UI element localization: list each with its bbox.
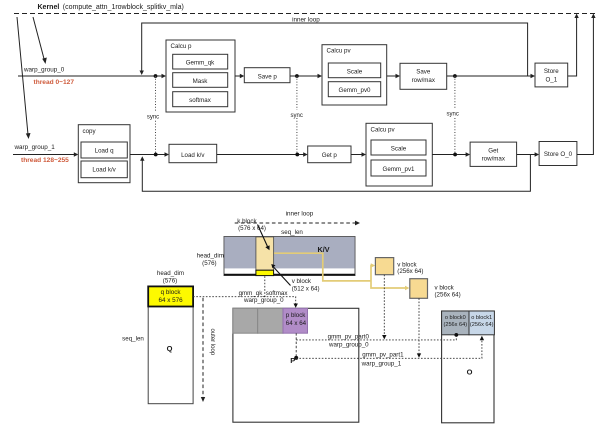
svg-text:o block1: o block1 [471, 315, 492, 321]
svg-text:O: O [467, 368, 473, 377]
label sync1 [147, 112, 161, 121]
label K/V [318, 245, 330, 254]
svg-text:(512 x 64): (512 x 64) [292, 286, 320, 293]
svg-text:copy: copy [83, 128, 97, 135]
box Calcu pv (warp_group_1) [366, 123, 432, 186]
wire Save p to Calcu pv [290, 74, 322, 78]
wire Store O_1 up to kernel boundary [568, 14, 579, 77]
svg-text:Calcu pv: Calcu pv [371, 127, 396, 134]
svg-text:Gemm_pv0: Gemm_pv0 [339, 87, 372, 94]
box Store O_0 [539, 142, 577, 166]
svg-text:p block: p block [286, 312, 307, 319]
node junction o block0 dot [454, 333, 458, 337]
svg-text:v block: v block [292, 278, 312, 285]
block p block purple [283, 308, 308, 333]
node junction sync2 top [295, 74, 299, 78]
svg-text:o block0: o block0 [445, 315, 466, 321]
label warp_group_1 [14, 144, 56, 151]
wire sync3 dotted [454, 76, 456, 155]
node junction sync1 bottom [154, 153, 158, 157]
svg-text:thread 0~127: thread 0~127 [34, 79, 75, 86]
svg-text:seq_len: seq_len [281, 229, 303, 236]
box Store O_1 [535, 63, 568, 87]
wire inner loop return (top row) [140, 23, 528, 76]
wire inner loop return (bottom row) [140, 155, 530, 192]
label warp_group_0 [23, 67, 65, 74]
svg-text:Store: Store [544, 68, 559, 75]
svg-text:inner loop: inner loop [292, 17, 320, 24]
svg-text:sync: sync [147, 114, 159, 120]
wire inner loop dashed arrow [235, 221, 360, 226]
svg-text:seq_len: seq_len [122, 336, 144, 343]
svg-text:Scale: Scale [391, 145, 407, 152]
svg-text:64 x 576: 64 x 576 [159, 297, 184, 304]
svg-text:Mask: Mask [193, 78, 209, 85]
svg-text:warp_group_1: warp_group_1 [14, 144, 56, 151]
box softmax [173, 92, 228, 107]
svg-text:Load k/v: Load k/v [181, 152, 205, 159]
block p gray cell 2 [258, 308, 283, 333]
label gmm_qk_softmax / warp_group_0 [239, 290, 289, 304]
box Save row/max [400, 63, 447, 89]
wire v square1 dotted down [382, 275, 386, 340]
box Gemm_pv0 [328, 82, 380, 97]
label thread 0~127 [34, 79, 75, 86]
wire main line warp_group_0 [18, 74, 166, 78]
wire copy to Load k/v [130, 152, 169, 156]
box Scale (pv1) [371, 140, 426, 155]
box Get row/max [470, 142, 516, 166]
wire outer loop dashed arrow [201, 298, 205, 402]
svg-text:(576): (576) [202, 260, 216, 267]
arrow kernel to warp_group_1 [17, 17, 31, 139]
svg-text:Gemm_qk: Gemm_qk [186, 60, 215, 67]
svg-text:Store O_0: Store O_0 [544, 151, 573, 158]
svg-text:gmm_pv_part1: gmm_pv_part1 [362, 352, 404, 359]
label seq_len (K/V) [281, 229, 303, 236]
wire v cell dotted down to gmm line [264, 276, 266, 296]
label v block (512 x 64) [292, 278, 320, 293]
box Save p [244, 68, 290, 83]
kernel dashed boundary [14, 13, 597, 15]
box Load k/v (main) [169, 144, 217, 162]
svg-text:head_dim: head_dim [157, 270, 184, 277]
block p gray cell 1 [233, 308, 258, 333]
svg-text:warp_group_0: warp_group_0 [243, 297, 284, 304]
block v cell yellow [256, 270, 274, 275]
svg-text:Calcu p: Calcu p [171, 43, 193, 50]
label head_dim (576) for Q [157, 270, 184, 284]
wire Store O_0 up to kernel boundary [577, 14, 596, 155]
label seq_len (Q) [122, 336, 144, 343]
label P [290, 356, 295, 365]
node junction sync3 top [453, 74, 457, 78]
wire p block dashed down [295, 333, 297, 357]
wire Calcu pv to Save row/max [387, 74, 400, 78]
svg-text:inner loop: inner loop [286, 211, 314, 218]
wire Calcu p to Save p [235, 74, 244, 78]
node junction sync3 bottom [453, 153, 457, 157]
label head_dim (576) for K/V [197, 252, 224, 267]
block o block1 [469, 311, 494, 335]
kernel title [38, 4, 184, 11]
block P matrix [233, 308, 359, 422]
arrow kernel to warp_group_0 [33, 17, 47, 64]
box Mask [173, 73, 228, 88]
svg-text:Q: Q [167, 344, 173, 353]
block k column highlight [256, 237, 274, 270]
wire gmm_pv_part1 dotted [296, 336, 484, 359]
label outer loop (rotated) [209, 329, 215, 356]
svg-text:O_1: O_1 [545, 77, 557, 84]
svg-text:Kernel(compute_attn_1rowblock_: Kernel(compute_attn_1rowblock_splitkv_ml… [38, 4, 184, 11]
svg-text:Get p: Get p [322, 152, 338, 159]
wire yellow path v block to squares [274, 253, 410, 290]
wire sync2 dotted [296, 76, 298, 155]
svg-text:warp_group_0: warp_group_0 [23, 67, 65, 74]
wire sync1 dotted [155, 76, 157, 155]
svg-text:(576 x 64): (576 x 64) [238, 225, 266, 232]
block v square 1 [375, 258, 393, 275]
svg-text:gmm_pv_part0: gmm_pv_part0 [328, 334, 370, 341]
svg-text:Save: Save [416, 69, 431, 76]
node junction sync2 bottom [295, 153, 299, 157]
wire Get p to Calcu pv [351, 152, 366, 156]
box Get p [308, 146, 351, 163]
box Gemm_qk [173, 54, 228, 69]
svg-text:(256x 64): (256x 64) [397, 268, 423, 275]
block O matrix [442, 311, 494, 423]
svg-text:Gemm_pv1: Gemm_pv1 [383, 166, 416, 173]
label inner loop (top) [292, 17, 320, 24]
arrow v block leader [271, 264, 290, 286]
label gmm_pv_part0 / warp_group_0 [328, 334, 370, 349]
wire Load k/v to Get p [217, 152, 308, 156]
block q block yellow [148, 286, 193, 306]
block o block0 [442, 311, 469, 335]
svg-text:sync: sync [447, 111, 459, 117]
box Calcu p [166, 40, 235, 112]
wire gmm_qk dotted q to p [193, 297, 298, 308]
node junction sync1 top [154, 74, 158, 78]
svg-text:head_dim: head_dim [197, 252, 224, 259]
svg-text:(576): (576) [163, 277, 177, 284]
svg-text:warp_group_1: warp_group_1 [361, 360, 402, 367]
label gmm_pv_part1 / warp_group_1 [361, 352, 404, 368]
label Q [167, 344, 173, 353]
svg-text:sync: sync [291, 113, 303, 119]
svg-text:row/max: row/max [412, 77, 436, 84]
wire gmm_pv_part0 dotted [296, 335, 456, 340]
label thread 128~255 [21, 157, 69, 164]
svg-text:Save p: Save p [258, 73, 278, 80]
svg-text:q block: q block [161, 289, 182, 296]
svg-text:warp_group_0: warp_group_0 [328, 341, 369, 348]
wire Get row/max to Store O_0 [517, 152, 540, 156]
label inner loop (memory) [286, 211, 314, 218]
svg-text:(256x 64): (256x 64) [470, 322, 494, 328]
wire v square2 dotted down [417, 298, 421, 358]
block v square 2 [410, 279, 428, 299]
svg-text:Load k/v: Load k/v [92, 167, 116, 174]
arrow k block label to column [258, 225, 270, 251]
svg-text:Calcu pv: Calcu pv [327, 48, 352, 55]
svg-text:Scale: Scale [347, 68, 363, 75]
node junction p dot [294, 356, 298, 360]
wire Save row/max to Store O_1 [447, 74, 535, 78]
box Load k/v (copy) [81, 161, 127, 178]
box Gemm_pv1 [371, 160, 426, 176]
block K/V matrix [224, 237, 355, 276]
svg-text:(256x 64): (256x 64) [435, 291, 461, 298]
svg-text:row/max: row/max [482, 156, 506, 163]
svg-text:thread 128~255: thread 128~255 [21, 157, 69, 164]
svg-text:(256x 64): (256x 64) [443, 322, 467, 328]
svg-text:Get: Get [488, 147, 498, 154]
block Q matrix [148, 286, 193, 403]
label v block (256x 64) second [435, 285, 461, 299]
label k block (576 x 64) [237, 218, 266, 232]
label sync3 [446, 109, 460, 118]
svg-text:outer loop: outer loop [209, 329, 215, 356]
box Scale (pv0) [328, 63, 380, 78]
wire main line warp_group_1 [13, 152, 78, 156]
box Load q [81, 142, 127, 158]
box copy [78, 125, 130, 183]
box Calcu pv (warp_group_0) [322, 45, 387, 105]
label sync2 [290, 110, 304, 119]
svg-text:64 x 64: 64 x 64 [286, 320, 307, 327]
label v block (256x 64) first [397, 262, 423, 276]
svg-text:Load q: Load q [95, 148, 114, 155]
label O [467, 368, 473, 377]
svg-text:softmax: softmax [189, 97, 212, 104]
wire Calcu pv to Get row/max [432, 152, 470, 156]
